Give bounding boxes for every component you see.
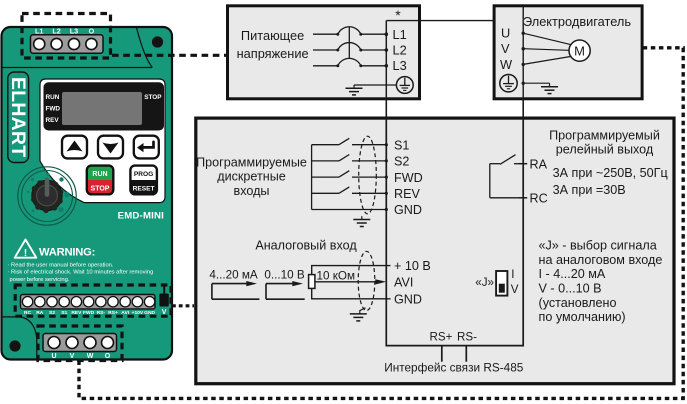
- svg-text:«J» - выбор сигнала: «J» - выбор сигнала: [539, 239, 657, 253]
- svg-text:WARNING:: WARNING:: [39, 247, 95, 259]
- svg-text:V: V: [501, 41, 510, 56]
- control terminal strip: [21, 295, 156, 309]
- svg-text:V: V: [511, 283, 519, 296]
- svg-text:RS-: RS-: [457, 331, 477, 344]
- relay rating 250V: [553, 166, 668, 180]
- svg-text:Питающее: Питающее: [241, 28, 304, 43]
- svg-text:· Read the user manual before: · Read the user manual before operation.: [8, 263, 114, 269]
- wire asterisk column to motor box: [386, 20, 494, 22]
- terminal O: [86, 27, 97, 50]
- terminal O output: [102, 337, 114, 361]
- dashed outline power terminals: [22, 14, 111, 59]
- svg-text:ELHART: ELHART: [7, 77, 29, 157]
- supply box: [228, 6, 420, 99]
- svg-text:входы: входы: [234, 184, 270, 198]
- terminal label S2: [394, 155, 409, 169]
- terminal label L2: [393, 43, 407, 58]
- breaker pole L3: [313, 58, 388, 67]
- switch input S2: [312, 155, 388, 163]
- terminal label FWD: [394, 171, 423, 185]
- svg-text:STOP: STOP: [144, 94, 162, 101]
- svg-text:L2: L2: [52, 27, 60, 36]
- control terminals: [22, 297, 154, 307]
- svg-text:I - 4...20 мА: I - 4...20 мА: [539, 267, 606, 281]
- motor box title: [523, 14, 631, 29]
- terminal label S1: [394, 138, 409, 152]
- svg-text:Аналоговый вход: Аналоговый вход: [255, 239, 357, 253]
- wire supply to control box: [385, 99, 387, 119]
- svg-text:RESET: RESET: [133, 185, 155, 192]
- svg-text:Программируемые: Программируемые: [196, 155, 307, 169]
- mounting hole bottom-left: [9, 340, 20, 351]
- dashed link output terminals to motor box: [79, 48, 683, 399]
- power terminal strip: [31, 35, 104, 53]
- svg-text:!: !: [24, 247, 28, 259]
- cable shield ellipse discrete: [359, 136, 377, 214]
- supply earth terminal: [396, 77, 413, 94]
- motor M: [569, 40, 590, 61]
- terminal V: [66, 337, 78, 361]
- relay output RA: [519, 157, 548, 171]
- drive terminal block outline: [386, 119, 523, 346]
- supply label: [237, 28, 309, 61]
- supply terminal column separator: [385, 21, 387, 99]
- control terminal labels: [24, 310, 155, 316]
- RS485 interface label: [384, 360, 524, 374]
- svg-text:по умолчанию): по умолчанию): [539, 310, 626, 324]
- dashed link power terminals to supply box: [112, 54, 226, 57]
- device bottom-left section divider: [3, 317, 37, 358]
- dashed outline control terminals: [15, 285, 171, 316]
- shield ground discrete: [353, 216, 370, 226]
- RS485 terminal RS+: [430, 331, 453, 362]
- dashed outline output terminals: [38, 326, 122, 361]
- run/stop button: [87, 166, 114, 195]
- terminal label U: [501, 26, 525, 41]
- terminal label W: [500, 57, 525, 72]
- svg-text:S1: S1: [394, 138, 409, 152]
- keypad button enter: [134, 136, 159, 159]
- svg-text:L1: L1: [35, 27, 43, 36]
- supply ground wire: [354, 84, 396, 86]
- wire pot to +10V: [312, 266, 391, 275]
- svg-text:на аналоговом входе: на аналоговом входе: [539, 253, 663, 267]
- svg-text:I: I: [511, 268, 514, 281]
- svg-text:RUN: RUN: [46, 94, 60, 101]
- svg-text:GND: GND: [394, 203, 422, 217]
- voltage source 0-10V: [264, 268, 304, 299]
- terminal U: [48, 337, 60, 361]
- jumper info text: [539, 239, 663, 325]
- svg-text:EMD-MINI: EMD-MINI: [118, 211, 164, 222]
- svg-text:FWD: FWD: [46, 106, 61, 113]
- control box: [196, 118, 674, 384]
- svg-text:3А при ~250В, 50Гц: 3А при ~250В, 50Гц: [553, 166, 668, 180]
- current source 4-20mA: [209, 268, 259, 299]
- svg-text:M: M: [574, 43, 585, 58]
- svg-text:L1: L1: [393, 27, 407, 42]
- potentiometer 10k body: [309, 275, 315, 289]
- terminal label REV: [394, 187, 420, 201]
- display status labels: [46, 94, 163, 124]
- terminal label AVI: [394, 275, 413, 289]
- device top-right corner arc: [137, 28, 153, 68]
- motor ground symbol: [541, 83, 558, 93]
- warning triangle icon: [15, 240, 37, 259]
- input common bus: [311, 145, 313, 210]
- terminal label GND analog: [394, 292, 422, 306]
- terminal label L1: [393, 27, 407, 42]
- svg-text:GND: GND: [394, 292, 422, 306]
- terminal L1: [34, 27, 45, 50]
- VFD drive EMD-MINI body: [2, 27, 173, 360]
- wire W to motor: [523, 56, 571, 64]
- terminal label GND: [394, 203, 422, 217]
- svg-text:REV: REV: [46, 117, 60, 124]
- output terminal strip: [43, 334, 117, 352]
- svg-text:STOP: STOP: [91, 185, 110, 192]
- motor terminal column separator: [522, 6, 524, 99]
- keypad front panel: [40, 79, 165, 203]
- keypad button up: [62, 136, 87, 159]
- wire U to motor: [523, 33, 571, 45]
- svg-text:RS+: RS+: [430, 331, 453, 344]
- svg-text:U: U: [501, 26, 510, 41]
- jumper J selector: [475, 268, 519, 296]
- warning notes: [8, 263, 154, 283]
- svg-text:O: O: [89, 27, 95, 36]
- svg-text:Программируемый: Программируемый: [549, 128, 660, 142]
- terminal label +10V: [394, 259, 431, 273]
- prog/reset button: [130, 166, 157, 195]
- shield ground analog: [350, 308, 367, 321]
- switch input S1: [312, 138, 388, 146]
- svg-text:power before servicing.: power before servicing.: [10, 277, 70, 283]
- terminal L2: [51, 27, 62, 50]
- svg-text:· Risk of electrical shock. Wa: · Risk of electrical shock. Wait 10 minu…: [8, 270, 154, 276]
- svg-text:напряжение: напряжение: [237, 46, 309, 61]
- svg-text:PROG: PROG: [134, 171, 153, 178]
- terminal W: [84, 337, 96, 361]
- analog input label: [255, 239, 357, 253]
- RS485 terminal RS-: [457, 331, 477, 362]
- wire pot to GND: [312, 288, 391, 298]
- svg-text:FWD: FWD: [394, 171, 423, 185]
- device top section divider: [3, 67, 153, 69]
- motor box: [494, 6, 642, 99]
- svg-text:L3: L3: [70, 27, 78, 36]
- terminal label L3: [393, 58, 407, 73]
- supply ground symbol: [346, 85, 363, 95]
- svg-text:релейный выход: релейный выход: [556, 143, 654, 157]
- note asterisk: [395, 7, 401, 23]
- EMD-MINI label: [118, 211, 164, 222]
- svg-text:дискретные: дискретные: [217, 170, 286, 184]
- jumper J on device: [159, 287, 168, 317]
- wire V to motor: [523, 49, 569, 51]
- motor ground wire: [523, 82, 549, 84]
- LCD screen: [62, 92, 142, 125]
- breaker gang link: [348, 27, 350, 59]
- svg-text:RUN: RUN: [92, 171, 107, 178]
- svg-text:+ 10 В: + 10 В: [394, 259, 431, 273]
- switch input FWD: [312, 171, 388, 179]
- svg-text:(установлено: (установлено: [539, 296, 617, 310]
- svg-text:RC: RC: [530, 192, 548, 206]
- cable shield ellipse analog: [358, 251, 375, 310]
- svg-text:RA: RA: [530, 157, 548, 171]
- svg-text:Интерфейс связи RS-485: Интерфейс связи RS-485: [384, 360, 524, 374]
- terminal label V: [501, 41, 525, 56]
- svg-text:L3: L3: [393, 58, 407, 73]
- svg-text:L2: L2: [393, 43, 407, 58]
- terminal L3: [68, 27, 79, 50]
- svg-text:4...20 мА: 4...20 мА: [209, 268, 258, 281]
- discrete inputs label: [196, 155, 307, 198]
- svg-text:3А при =30В: 3А при =30В: [553, 183, 626, 197]
- svg-text:REV: REV: [394, 187, 420, 201]
- ELHART logo badge: [7, 72, 29, 163]
- GND wire discrete: [312, 208, 388, 211]
- WARNING heading: [39, 247, 95, 259]
- relay contact: [490, 155, 519, 198]
- svg-text:AVI: AVI: [394, 275, 413, 289]
- wire motor to control box: [522, 99, 524, 119]
- breaker pole L2: [313, 43, 388, 52]
- svg-text:Электродвигатель: Электродвигатель: [523, 14, 631, 29]
- svg-text:10 кОм: 10 кОм: [317, 269, 356, 282]
- svg-text:V - 0...10 В: V - 0...10 В: [539, 282, 602, 296]
- relay output RC: [519, 192, 548, 206]
- speed potentiometer knob: [18, 167, 76, 225]
- keypad button down: [98, 136, 123, 159]
- display bezel: [44, 82, 165, 130]
- mounting hole top-right: [152, 36, 163, 47]
- svg-text:S2: S2: [394, 155, 409, 169]
- wiper wire to AVI: [315, 279, 386, 284]
- dashed link control terminals to control box: [172, 304, 194, 307]
- potentiometer 10k label: [317, 269, 356, 282]
- relay rating 30V: [553, 183, 626, 197]
- relay output label: [549, 128, 660, 156]
- motor earth terminal: [500, 75, 525, 92]
- switch input REV: [312, 187, 388, 195]
- svg-text:0...10 В: 0...10 В: [264, 268, 304, 281]
- svg-text:«J»: «J»: [475, 276, 494, 289]
- breaker pole L1: [313, 27, 388, 36]
- svg-text:W: W: [500, 57, 513, 72]
